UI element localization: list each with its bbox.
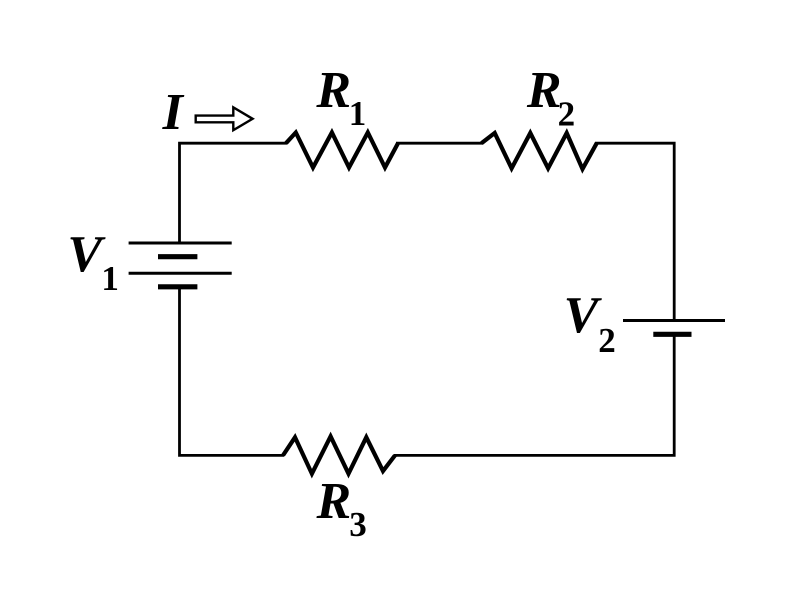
- battery V2 positive plate (long): [623, 319, 725, 322]
- svg-text:V: V: [564, 287, 603, 344]
- battery V2 negative plate (short thick): [653, 332, 691, 337]
- svg-text:2: 2: [558, 94, 576, 133]
- svg-text:1: 1: [349, 94, 367, 133]
- current direction arrow: [196, 107, 253, 130]
- wire: V2 down around bottom-right corner to R3: [394, 334, 674, 455]
- svg-text:I: I: [162, 84, 185, 141]
- svg-text:2: 2: [598, 321, 616, 360]
- wire: R1 to R2: [396, 142, 483, 145]
- wire: V1 top terminal up and across top-left corner to R1: [180, 143, 288, 243]
- battery V1 cell 1 positive plate (long): [129, 242, 232, 245]
- battery V1 cell 2 negative plate (short thick): [158, 284, 197, 289]
- resistor R3: [283, 436, 395, 473]
- battery V1 cell 2 positive plate (long): [129, 272, 232, 275]
- svg-text:3: 3: [349, 505, 367, 544]
- svg-text:R: R: [316, 473, 352, 530]
- battery V1 cell 1 negative plate (short thick): [158, 254, 197, 259]
- resistor R2: [482, 133, 597, 169]
- resistor R1: [286, 133, 398, 168]
- svg-text:R: R: [526, 62, 562, 119]
- wire: R2 across top-right corner down to battery V2: [595, 143, 674, 320]
- svg-text:R: R: [315, 62, 351, 119]
- wire: R3 across bottom-left corner up to V1 bottom terminal: [180, 287, 285, 455]
- svg-text:1: 1: [101, 259, 119, 298]
